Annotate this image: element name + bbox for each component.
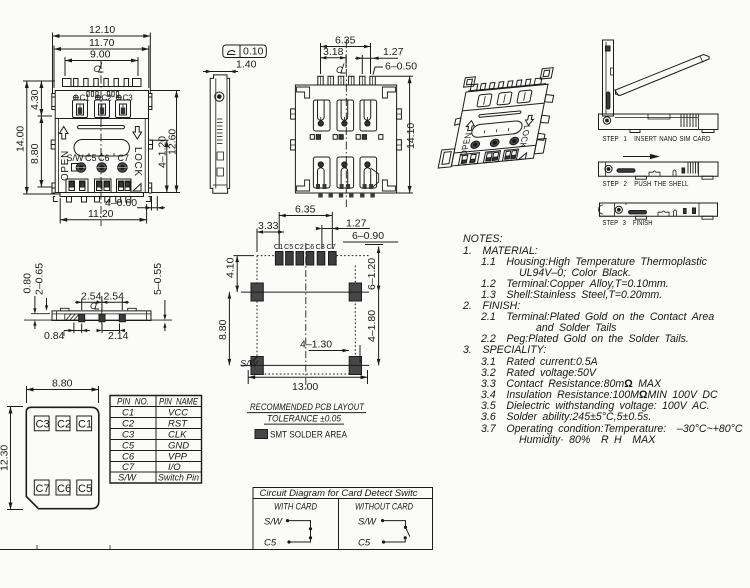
dim 0.80 (22, 273, 51, 329)
svg-text:LOCK: LOCK (132, 147, 143, 177)
upper contact C1 (73, 95, 88, 118)
pad C2 (56, 416, 70, 431)
pad labels C1 C5 C2 C6 C3 C7 (274, 242, 336, 251)
without-card switch (open) (381, 519, 410, 544)
centerline (100, 61, 102, 226)
svg-text:CLK: CLK (168, 430, 187, 441)
dim 8.80 (217, 292, 231, 365)
svg-text:2.14: 2.14 (108, 330, 129, 342)
step1 base housing (599, 114, 719, 133)
smt solder area legend (255, 430, 268, 439)
svg-text:8.80: 8.80 (217, 319, 229, 340)
upper contact assembly 2 (337, 100, 354, 131)
pad C6 (56, 480, 70, 495)
svg-text:4.10: 4.10 (225, 257, 237, 278)
dim 4-1.30 (300, 339, 360, 364)
svg-text:3.18: 3.18 (323, 46, 344, 58)
pad C1 (77, 416, 92, 431)
iso left edge hooks (455, 118, 461, 125)
svg-text:GND: GND (168, 441, 189, 452)
sheet bottom border (0, 545, 433, 550)
dashed courtyard outline (257, 256, 370, 374)
profile body (24, 308, 172, 322)
top-left corner bracket (297, 87, 310, 98)
iso shell body (438, 67, 560, 168)
circuit diagram for card detect switch (253, 488, 433, 550)
hatched shell section (65, 314, 82, 320)
svg-text:C5: C5 (358, 538, 371, 549)
bottom-right corner bracket (382, 180, 395, 191)
dim 14.00 left (15, 81, 61, 194)
left bottom wing (52, 183, 58, 202)
dim 4-1.80 (366, 292, 380, 365)
dim 11.70 (54, 37, 149, 88)
upper contact assembly 1 (313, 100, 330, 131)
svg-text:2–0.65: 2–0.65 (34, 263, 46, 295)
svg-text:0.10: 0.10 (243, 46, 264, 58)
svg-text:I/O: I/O (168, 462, 181, 473)
labels C1 C2 C3 (80, 94, 134, 103)
iso pins (470, 141, 480, 149)
left mid hook (51, 140, 55, 149)
dim 4.30 / 8.80 left chain (29, 81, 52, 187)
dim 0.84 (44, 323, 90, 343)
dim 4.10 (225, 256, 255, 293)
step3 assembly (599, 203, 718, 219)
svg-text:6.35: 6.35 (295, 204, 316, 216)
dim 3.18 (321, 46, 347, 68)
dim 12.30 card height (0, 407, 23, 510)
svg-text:TOLERANCE ±0.05: TOLERANCE ±0.05 (267, 414, 342, 424)
corner SMT pads (251, 283, 362, 375)
svg-text:C7: C7 (122, 462, 135, 473)
step1 sim card inserted diagonally (616, 55, 710, 96)
svg-text:C2: C2 (102, 94, 113, 103)
dim 12.10 (53, 24, 151, 93)
with-card switch (closed) (286, 519, 312, 544)
svg-text:S/W: S/W (358, 517, 377, 528)
top bumps (61, 308, 137, 311)
dim 4-1.20 right (150, 136, 169, 193)
svg-text:8.80: 8.80 (29, 143, 41, 164)
contact pin 2 (97, 163, 107, 173)
svg-text:C3: C3 (36, 419, 50, 431)
dim 9.00 (65, 49, 138, 77)
svg-text:PIN NO.: PIN NO. (117, 397, 149, 408)
labels S/W C5 C6 C7 (67, 153, 130, 163)
switch pad (72, 164, 79, 172)
svg-text:6–1.20: 6–1.20 (366, 258, 378, 290)
svg-text:4–1.30: 4–1.30 (300, 339, 332, 351)
svg-text:6.35: 6.35 (335, 35, 356, 47)
step1 hinged shell (vertical) (603, 40, 614, 116)
iso top-left claw (464, 77, 476, 87)
svg-text:Humidity· 80% R H MAX: Humidity· 80% R H MAX (519, 434, 656, 446)
svg-text:C7: C7 (327, 242, 336, 251)
dim 6-0.90 leader (343, 230, 398, 242)
svg-text:C1: C1 (80, 94, 91, 103)
svg-text:RECOMMENDED PCB LAYOUT: RECOMMENDED PCB LAYOUT (250, 402, 365, 412)
lock arrow (down) (133, 127, 142, 140)
seating plane line (24, 319, 172, 321)
svg-text:WITH CARD: WITH CARD (274, 501, 317, 512)
contact dark tips (78, 108, 125, 115)
svg-text:C5: C5 (284, 242, 293, 251)
svg-text:SMT SOLDER AREA: SMT SOLDER AREA (270, 430, 348, 440)
svg-text:C6: C6 (57, 483, 71, 495)
svg-text:S/W: S/W (67, 153, 85, 163)
dim 6.35 (321, 35, 371, 75)
pad C7 (34, 480, 49, 495)
svg-text:S/W: S/W (118, 473, 137, 484)
dim 1.27 (355, 46, 404, 74)
caption: recommended pcb layout (250, 402, 365, 424)
centerline symbol (90, 301, 97, 311)
nano sim card outline (0, 378, 99, 510)
dim 12.60 right (150, 91, 180, 193)
svg-text:C6: C6 (122, 452, 135, 463)
svg-text:STEP 2 PUSH THE SHELL: STEP 2 PUSH THE SHELL (603, 179, 689, 188)
shell step line (55, 118, 148, 120)
svg-text:1.27: 1.27 (383, 46, 404, 58)
svg-text:6–0.90: 6–0.90 (352, 230, 384, 242)
dim 4-0.60 bottom (105, 196, 165, 211)
svg-text:Circuit Diagram for Card Detec: Circuit Diagram for Card Detect Switc (260, 488, 418, 499)
pad C3 (34, 416, 49, 431)
upper contact assembly 3 (360, 100, 377, 131)
svg-text:1.27: 1.27 (346, 218, 367, 230)
bottom-left corner bracket (297, 180, 310, 191)
bottom tail group 2 (95, 179, 112, 193)
svg-text:11.70: 11.70 (89, 37, 115, 49)
svg-text:8.80: 8.80 (52, 378, 73, 390)
dim 11.20 bottom (60, 198, 146, 224)
recommended pcb layout (217, 204, 398, 440)
right bottom wing (146, 183, 152, 202)
LOCK label (132, 147, 143, 177)
top solder tails x6 (318, 76, 376, 85)
contact nubs below (79, 314, 126, 322)
svg-text:3. SPECIALITY:: 3. SPECIALITY: (463, 344, 546, 356)
svg-text:VCC: VCC (168, 408, 188, 419)
dim 6.35 pads (279, 204, 332, 250)
svg-text:RST: RST (168, 419, 188, 430)
lower contact assembly 2 (337, 157, 354, 189)
svg-text:9.00: 9.00 (90, 49, 111, 61)
iso open arrow (465, 120, 475, 131)
svg-text:VPP: VPP (168, 452, 188, 463)
svg-text:C2: C2 (295, 242, 304, 251)
left ear bracket (52, 94, 55, 110)
bottom tail tips (318, 193, 375, 198)
side body (210, 75, 229, 193)
bottom tail group 3 (117, 179, 132, 193)
svg-text:6–0.50: 6–0.50 (385, 61, 417, 73)
iso window (471, 120, 524, 138)
shell body outline (55, 91, 148, 193)
svg-text:C5: C5 (78, 483, 92, 495)
step1 hinge (603, 117, 610, 124)
dim 6-1.20 (365, 245, 383, 293)
svg-text:2.54: 2.54 (81, 291, 102, 303)
svg-text:C1: C1 (274, 242, 283, 251)
upper contact C2 (95, 95, 110, 118)
OPEN label (60, 150, 71, 181)
svg-text:4–1.80: 4–1.80 (366, 310, 378, 342)
lower contact assembly 1 (313, 157, 330, 189)
centerline (345, 40, 347, 207)
centerline symbol CL (336, 65, 343, 76)
shell slot row (87, 92, 119, 97)
iso upper contacts (477, 90, 532, 107)
svg-text:WITHOUT CARD: WITHOUT CARD (355, 501, 413, 512)
terminal pads row (275, 252, 336, 266)
svg-text:C1: C1 (78, 419, 92, 431)
centerline symbol CL (94, 64, 101, 75)
svg-text:4–1.20: 4–1.20 (157, 136, 169, 168)
svg-text:3.33: 3.33 (258, 220, 279, 232)
centerline (305, 243, 307, 390)
svg-text:STEP 3 FINISH: STEP 3 FINISH (603, 218, 653, 227)
top-right corner bracket (382, 87, 395, 98)
right mid hook (149, 140, 153, 149)
svg-text:13.00: 13.00 (292, 381, 318, 393)
svg-text:12.10: 12.10 (89, 24, 115, 36)
open arrow (up) (59, 127, 68, 140)
svg-text:S/W: S/W (264, 517, 283, 528)
hatch marks (217, 119, 223, 144)
dim 2-0.65 (34, 263, 49, 311)
corner triangle (133, 184, 141, 192)
svg-text:STEP 1 INSERT NANO SIM CARD: STEP 1 INSERT NANO SIM CARD (603, 134, 711, 143)
contact pin 1 (76, 163, 86, 173)
dim 13.00 (248, 370, 367, 393)
svg-text:Switch Pin: Switch Pin (158, 473, 199, 484)
svg-text:C3: C3 (316, 242, 325, 251)
svg-text:C5: C5 (85, 153, 97, 163)
svg-text:C5: C5 (122, 441, 135, 452)
svg-text:3.6 Solder ability:245±5°C,5±: 3.6 Solder ability:245±5°C,5±0.5s. (481, 411, 651, 423)
svg-text:C5: C5 (264, 538, 277, 549)
svg-text:C7: C7 (36, 483, 50, 495)
window stadium (74, 140, 130, 157)
top comb teeth (62, 79, 141, 87)
step2 caption (603, 179, 689, 188)
svg-text:0.80: 0.80 (22, 273, 34, 294)
slot bar (78, 126, 125, 129)
right ear bracket (149, 94, 152, 110)
svg-text:C2: C2 (122, 419, 135, 430)
iso right claws (544, 94, 554, 103)
svg-text:4.30: 4.30 (29, 89, 41, 110)
svg-text:1.40: 1.40 (236, 59, 257, 71)
iso slot (479, 111, 522, 118)
iso bottom right block (534, 138, 546, 153)
svg-text:12.30: 12.30 (0, 445, 11, 471)
svg-text:5–0.55: 5–0.55 (152, 263, 164, 295)
svg-text:C1: C1 (122, 408, 134, 419)
notes text block (462, 233, 743, 446)
svg-text:C6: C6 (98, 153, 110, 163)
dim 1.27 (316, 218, 370, 250)
pad C5 (77, 480, 92, 495)
dim 1.40 (203, 59, 257, 74)
svg-text:14.00: 14.00 (15, 126, 27, 152)
iso top-right claw (540, 68, 553, 79)
body outline (295, 85, 396, 193)
svg-text:C2: C2 (57, 419, 71, 431)
svg-text:14.10: 14.10 (405, 123, 417, 149)
S/W leader (240, 357, 259, 369)
svg-text:11.20: 11.20 (88, 208, 114, 220)
svg-text:C3: C3 (122, 430, 135, 441)
upper contact C3 (116, 95, 131, 118)
svg-text:PIN NAME: PIN NAME (159, 397, 199, 408)
svg-text:C7: C7 (118, 153, 130, 163)
left edge lugs (291, 109, 296, 119)
flatness tolerance box (223, 45, 266, 58)
step3 caption (603, 218, 653, 227)
svg-text:2.54: 2.54 (104, 291, 125, 303)
iso bottom band (454, 145, 536, 153)
iso lock arrow (524, 115, 534, 126)
dim 5-0.55 (152, 263, 166, 331)
eyelet (215, 92, 224, 101)
middle locator squares (310, 135, 383, 140)
pin table (110, 396, 202, 484)
lower contact assembly 3 (switch) (360, 157, 379, 189)
svg-text:C3: C3 (123, 94, 134, 103)
dim 3.33 (257, 220, 284, 252)
svg-text:S/W: S/W (240, 359, 259, 369)
dim 2.54 2.54 (75, 291, 129, 311)
right edge lugs (397, 109, 402, 119)
step1 caption (603, 134, 711, 143)
dim 8.80 card width (27, 378, 99, 404)
dim 6-0.50 leader (373, 61, 417, 75)
step2 push arrow (623, 156, 650, 158)
contact pin 3 (118, 163, 128, 173)
svg-text:NOTES:: NOTES: (463, 233, 502, 245)
step2 assembly (599, 162, 719, 179)
svg-text:0.84: 0.84 (44, 330, 65, 342)
pad center lines (241, 291, 369, 293)
dim 14.10 right (376, 76, 417, 193)
dim 2.14 (97, 324, 129, 343)
bottom tail group 1 (66, 179, 88, 193)
iso LOCK label (517, 124, 533, 149)
bottom flange (60, 193, 144, 197)
iso teeth (468, 78, 547, 91)
iso left front block (438, 149, 455, 168)
bottom teeth (67, 197, 131, 203)
iso OPEN label (458, 132, 474, 157)
svg-text:C6: C6 (305, 242, 314, 251)
